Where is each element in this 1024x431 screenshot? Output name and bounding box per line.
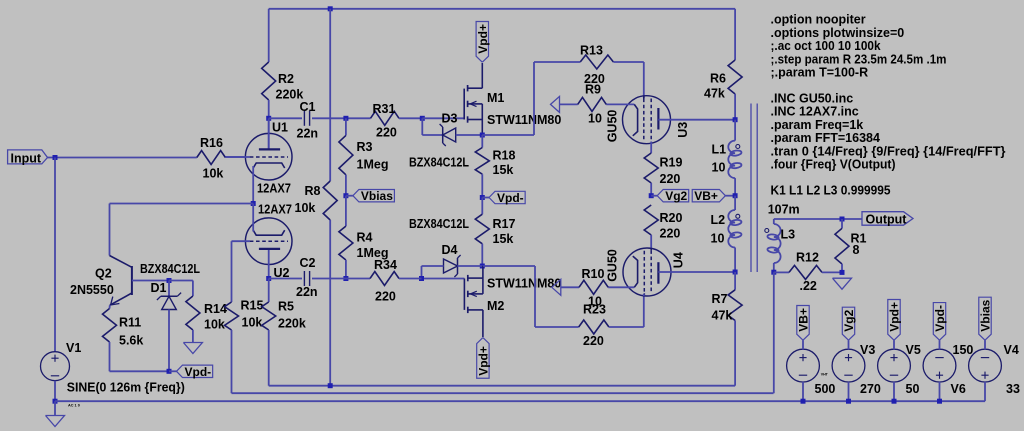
node U2 plate/C2/R5 — [266, 276, 271, 281]
wire input — [48, 157, 197, 159]
wire V1 bottom — [54, 381, 56, 402]
inductor L1 — [734, 120, 736, 141]
svg-text:220: 220 — [660, 172, 681, 186]
svg-text:15k: 15k — [493, 163, 514, 177]
svg-text:V3: V3 — [860, 343, 875, 357]
flag Vpd- bottom — [169, 370, 177, 372]
source V6 Vpd- — [923, 349, 956, 382]
svg-text:220k: 220k — [278, 317, 306, 331]
inductor L2 — [734, 196, 736, 210]
wire R34 to gate node — [399, 278, 422, 280]
svg-text:L2: L2 — [711, 213, 726, 227]
svg-text:R13: R13 — [580, 44, 603, 58]
wire top rail left drop to R2 — [268, 9, 270, 62]
wire top rail — [269, 8, 735, 10]
resistor R11 — [109, 305, 111, 308]
svg-text:;.param T=100-R: ;.param T=100-R — [771, 66, 869, 80]
node M2 source / D4 / R17 — [480, 264, 485, 269]
node U1 plate / C1 — [266, 116, 271, 121]
resistor R9 — [578, 97, 607, 111]
node Vpd- mid — [480, 195, 485, 200]
capacitor C2 — [303, 271, 305, 286]
svg-text:10: 10 — [588, 112, 602, 126]
wire R13 to U3 g1 — [613, 61, 643, 63]
resistor R16 — [197, 151, 226, 165]
wire to R14 — [169, 280, 193, 282]
svg-text:.INC 12AX7.inc: .INC 12AX7.inc — [771, 105, 859, 119]
svg-text:R34: R34 — [374, 258, 397, 272]
flag Vg2 src — [848, 340, 850, 349]
ground R14 — [183, 343, 202, 354]
wire collector link — [110, 203, 254, 205]
flag Vpd+ src — [893, 340, 895, 349]
wire M2 source to R23 riser — [483, 265, 535, 267]
node V1/gnd rail — [53, 399, 58, 404]
node Vbias — [343, 193, 348, 198]
svg-text:R14: R14 — [204, 302, 227, 316]
svg-text:R8: R8 — [305, 184, 321, 198]
svg-text:1Meg: 1Meg — [357, 158, 389, 172]
svg-text:Vpd+: Vpd+ — [476, 346, 490, 376]
arrow flag R10 — [552, 279, 561, 295]
triode U1 12AX7 — [245, 133, 292, 180]
svg-text:R9: R9 — [585, 83, 601, 97]
flag Vpd- src — [939, 340, 941, 349]
node L3 bottom — [771, 270, 776, 275]
wire rail A — [269, 385, 735, 387]
wire M2 gate — [422, 278, 465, 280]
svg-text:12AX7: 12AX7 — [257, 182, 291, 196]
wire C1 left — [269, 117, 302, 119]
node input/V1 — [53, 155, 58, 160]
transformer core — [750, 104, 752, 273]
triode U2 12AX7 flipped — [245, 218, 292, 265]
wire R16 to U1 grid — [225, 156, 245, 158]
svg-text:K1 L1 L2 L3 0.999995: K1 L1 L2 L3 0.999995 — [771, 184, 891, 198]
source V4 Vbias — [969, 349, 1002, 382]
resistor R5 — [268, 279, 270, 303]
wire R2 to plate node — [268, 100, 270, 149]
svg-text:C1: C1 — [300, 100, 316, 114]
svg-text:R17: R17 — [493, 217, 516, 231]
wire L3 top to output — [774, 218, 862, 220]
wire C1 right to R3 node — [312, 117, 371, 119]
resistor R31 — [371, 111, 400, 125]
svg-text:Q2: Q2 — [95, 267, 112, 281]
resistor R12 — [774, 271, 789, 273]
svg-text:220: 220 — [375, 290, 396, 304]
svg-text:;.ac oct 100 10 100k: ;.ac oct 100 10 100k — [771, 39, 881, 53]
svg-text:.param Freq=1k: .param Freq=1k — [771, 118, 864, 132]
wire gnd rail C — [55, 400, 985, 402]
resistor R8 column — [329, 9, 331, 181]
svg-text:R2: R2 — [278, 72, 294, 86]
wire D1 down — [168, 310, 170, 372]
svg-text:Vpd+: Vpd+ — [476, 24, 490, 54]
wire arrow to R10 — [561, 286, 579, 288]
svg-text:Vpd-: Vpd- — [933, 305, 947, 332]
svg-text:107m: 107m — [768, 203, 800, 217]
svg-text:Vpd-: Vpd- — [185, 365, 212, 379]
node L1/L2/VB+ — [733, 193, 738, 198]
svg-text:Output: Output — [866, 212, 908, 226]
svg-text:D4: D4 — [442, 243, 458, 257]
svg-text:M1: M1 — [487, 91, 504, 105]
node output/R1 — [840, 217, 845, 222]
svg-text:R31: R31 — [373, 102, 396, 116]
resistor R2 — [262, 62, 276, 100]
svg-text:R5: R5 — [278, 300, 294, 314]
svg-text:Vg2: Vg2 — [842, 309, 856, 331]
resistor R17 — [481, 198, 483, 215]
svg-text:R18: R18 — [493, 149, 516, 163]
svg-text:220: 220 — [583, 334, 604, 348]
wire C2 right — [312, 278, 370, 280]
transistor M2 nmos flipped — [463, 279, 465, 310]
flag VB+ right — [692, 190, 725, 202]
resistor R34 — [370, 272, 399, 286]
resistor R14 — [186, 296, 200, 330]
zener D1 — [168, 281, 170, 297]
node R1/R12/gnd — [840, 270, 845, 275]
svg-text:.four {Freq} V(Output): .four {Freq} V(Output) — [771, 158, 896, 172]
transistor Q2 npn mirrored — [131, 266, 133, 295]
wire R23 to U4 g1 — [609, 326, 644, 328]
svg-text:.param FFT=16384: .param FFT=16384 — [771, 131, 880, 145]
resistor R13 — [580, 55, 613, 69]
svg-text:R10: R10 — [582, 267, 605, 281]
svg-text:12AX7: 12AX7 — [258, 203, 292, 217]
wire gate — [422, 117, 464, 119]
node top-rail / R8 junction — [328, 6, 333, 11]
svg-text:10: 10 — [712, 161, 726, 175]
resistor R18 — [481, 135, 483, 148]
svg-text:V4: V4 — [1004, 343, 1019, 357]
wire D4 left to gate node — [422, 265, 444, 267]
flag Vpd+ top — [476, 22, 488, 63]
svg-text:10k: 10k — [242, 316, 263, 330]
resistor R15 — [225, 302, 239, 330]
ground V1 — [54, 401, 56, 415]
wire rail B — [232, 392, 774, 394]
wires source bottoms — [802, 382, 804, 401]
svg-text:22n: 22n — [296, 285, 318, 299]
wire D3 to source node — [456, 134, 483, 136]
wire C2 left — [269, 278, 302, 280]
source V5 Vpd+ — [878, 349, 911, 382]
svg-text:D1: D1 — [151, 281, 167, 295]
source V3 Vg2 — [832, 349, 865, 382]
resistor R3 — [345, 118, 347, 135]
svg-text:R16: R16 — [200, 136, 223, 150]
svg-text:GU50: GU50 — [606, 249, 620, 282]
svg-text:L1: L1 — [712, 143, 727, 157]
svg-text:VB+: VB+ — [694, 189, 718, 203]
flag Vpd- mid — [482, 197, 489, 199]
svg-text:50: 50 — [906, 382, 920, 396]
svg-text:47k: 47k — [712, 309, 733, 323]
source V2 VB+ — [787, 349, 820, 382]
svg-text:Vpd-: Vpd- — [497, 191, 524, 205]
svg-text:R4: R4 — [357, 231, 373, 245]
flag VB+ src — [802, 340, 804, 349]
flag Output port — [862, 212, 913, 226]
svg-text:.options plotwinsize=0: .options plotwinsize=0 — [771, 26, 905, 40]
svg-text:Input: Input — [11, 151, 42, 165]
svg-text:.22: .22 — [800, 279, 817, 293]
flag Vbias — [346, 195, 353, 197]
source V1 — [41, 352, 70, 381]
svg-text:Vg2: Vg2 — [665, 189, 687, 203]
svg-text:BZX84C12L: BZX84C12L — [409, 156, 469, 170]
node D1/Vpd- — [167, 369, 172, 374]
svg-text:8: 8 — [853, 243, 860, 257]
svg-text:10k: 10k — [203, 167, 224, 181]
zener D3 — [443, 128, 456, 142]
resistor R1 — [841, 219, 843, 228]
svg-text:R19: R19 — [660, 156, 683, 170]
resistor R19 — [644, 153, 658, 183]
svg-text:VHT: VHT — [821, 373, 829, 377]
svg-text:.INC GU50.inc: .INC GU50.inc — [771, 92, 854, 106]
svg-text:STW11NM80: STW11NM80 — [487, 113, 561, 127]
svg-text:33: 33 — [1006, 382, 1020, 396]
svg-text:BZX84C12L: BZX84C12L — [409, 217, 469, 231]
node R31/D3/M1-gate — [420, 116, 425, 121]
svg-text:270: 270 — [860, 382, 881, 396]
svg-text:Vpd+: Vpd+ — [888, 302, 902, 332]
svg-text:C2: C2 — [300, 256, 316, 270]
wire L3 bottom down rail B — [773, 272, 775, 393]
node R4/C2/R34 — [343, 276, 348, 281]
resistor R10 — [579, 280, 608, 294]
svg-text:Vbias: Vbias — [361, 189, 393, 203]
pentode U4 GU50 flipped — [623, 248, 671, 296]
svg-text:R20: R20 — [660, 211, 683, 225]
transistor M1 nmos — [463, 89, 465, 120]
svg-text:U3: U3 — [676, 122, 690, 138]
resistor R6 — [734, 9, 736, 60]
svg-text:10: 10 — [711, 232, 725, 246]
svg-text:V6: V6 — [951, 382, 966, 396]
wire R31 to M1 gate node — [399, 117, 422, 119]
svg-text:R7: R7 — [712, 292, 728, 306]
ground output — [833, 278, 852, 289]
svg-text:10k: 10k — [295, 201, 316, 215]
svg-text:15k: 15k — [493, 232, 514, 246]
node U4 plate / R7 / L2 — [733, 270, 738, 275]
node U1/U2 cathode join — [251, 201, 256, 206]
svg-text:R3: R3 — [357, 140, 373, 154]
svg-text:U1: U1 — [272, 121, 288, 135]
svg-text:220: 220 — [660, 227, 681, 241]
wire riser to R13 — [534, 61, 580, 63]
node M1 source — [480, 133, 485, 138]
svg-text:R12: R12 — [796, 251, 819, 265]
svg-text:BZX84C12L: BZX84C12L — [140, 262, 200, 276]
svg-text:150: 150 — [953, 343, 974, 357]
svg-text:5.6k: 5.6k — [119, 334, 143, 348]
resistor R4 — [345, 196, 347, 226]
flag Vpd+ bottom — [477, 338, 489, 379]
wire Vpd- bottom — [110, 370, 170, 372]
capacitor C1 — [303, 111, 305, 126]
node C1/R3/R31 — [343, 116, 348, 121]
wire riser to R23 — [535, 326, 579, 328]
svg-text:R6: R6 — [710, 72, 726, 86]
svg-text:22n: 22n — [297, 127, 319, 141]
wire V1 drop — [54, 158, 56, 352]
svg-text:VB+: VB+ — [797, 308, 811, 332]
svg-text:R11: R11 — [119, 316, 141, 330]
svg-text:10k: 10k — [204, 318, 225, 332]
arrow flag R9 — [551, 96, 560, 112]
wire D3 stub — [421, 118, 423, 135]
wire VB+ to L1/L2 node — [725, 195, 735, 197]
svg-text:47k: 47k — [704, 87, 725, 101]
wire arrow to R9 — [560, 103, 578, 105]
flag Vbias src — [984, 340, 986, 349]
svg-text:GU50: GU50 — [606, 110, 620, 143]
node Vg2 — [649, 193, 654, 198]
node Q2 base / D1 / R14 — [167, 278, 172, 283]
svg-text:U4: U4 — [672, 252, 686, 268]
inductor L3 — [773, 219, 775, 224]
svg-text:2N5550: 2N5550 — [70, 283, 114, 297]
resistor R20 — [644, 205, 658, 235]
svg-text:V1: V1 — [66, 341, 81, 355]
node R34/D4/M2-gate — [419, 276, 424, 281]
node U3 plate / R6 / L1 — [733, 117, 738, 122]
svg-text:.tran 0 {14/Freq} {9/Freq} {14: .tran 0 {14/Freq} {9/Freq} {14/Freq/FFT} — [771, 144, 1006, 158]
pentode U3 GU50 — [623, 96, 671, 144]
zener D4 — [444, 259, 458, 273]
svg-text:10: 10 — [588, 295, 602, 309]
wire D4 right — [458, 265, 483, 267]
svg-text:.option noopiter: .option noopiter — [771, 13, 866, 27]
svg-text:D3: D3 — [442, 112, 458, 126]
svg-text:;.step param R 23.5m 24.5m .1m: ;.step param R 23.5m 24.5m .1m — [771, 52, 947, 66]
svg-text:220: 220 — [376, 126, 397, 140]
svg-text:M2: M2 — [487, 299, 504, 313]
svg-text:STW11NM80: STW11NM80 — [487, 277, 561, 291]
svg-text:R15: R15 — [241, 299, 264, 313]
svg-text:AC 1 0: AC 1 0 — [68, 403, 80, 407]
flag Vg2 — [651, 195, 657, 197]
svg-text:SINE(0 126m {Freq}): SINE(0 126m {Freq}) — [67, 381, 185, 395]
node R8/rail A — [328, 383, 333, 388]
wire U2 grid to R15 — [231, 241, 233, 302]
svg-text:Vbias: Vbias — [979, 299, 993, 331]
svg-text:L3: L3 — [781, 228, 796, 242]
flag Input port — [8, 150, 48, 164]
wire M1 source to R13 riser — [482, 134, 534, 136]
svg-text:500: 500 — [815, 382, 836, 396]
svg-text:V5: V5 — [906, 343, 921, 357]
resistor R23 — [579, 320, 609, 334]
resistor R7 — [734, 272, 736, 290]
